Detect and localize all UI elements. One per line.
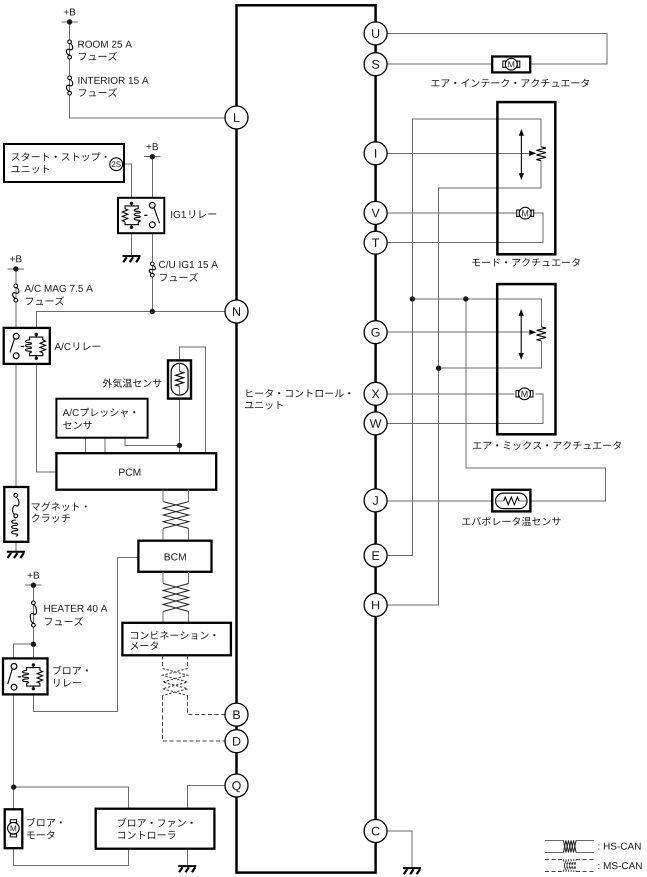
label HEATER fuse: [44, 605, 107, 612]
blower motor box: [5, 809, 23, 848]
wire mode pot top to bus A down to terminal E: [376, 119, 542, 555]
terminal H: [364, 594, 387, 617]
wire IG1 relay switch to C/U IG1 fuse to node at N line: [151, 233, 153, 311]
wire terminal T to mode actuator motor return: [376, 213, 543, 243]
relay IG1 coil: [130, 202, 133, 205]
terminal U: [364, 22, 387, 45]
wire terminal C to ground: [376, 831, 412, 868]
terminal N: [225, 300, 248, 323]
PCM box: [56, 453, 216, 490]
combination meter box: [122, 623, 230, 656]
dashed wire combination meter to terminal B: [188, 696, 227, 715]
air mix actuator box: [497, 284, 555, 434]
legend HS-CAN label: [598, 843, 640, 850]
junction node blower motor / controller: [11, 784, 16, 789]
fuse INTERIOR 15 A: [68, 76, 72, 80]
evaporator temp sensor box: [492, 490, 530, 512]
junction node C/U IG1 fuse at N line: [150, 309, 155, 314]
wire terminal V to mode actuator motor: [376, 212, 517, 214]
junction node temp sensor / pressure sensor: [177, 443, 182, 448]
wire terminal G to air mix wiper: [387, 331, 532, 333]
blower fan controller box: [96, 809, 215, 849]
BCM box: [138, 541, 211, 572]
relay IG1 switch: [149, 202, 155, 208]
wire A/C relay switch to magnet clutch: [15, 364, 17, 487]
wire outside air temp sensor top loop to PCM: [180, 347, 206, 453]
junction node bus C at air mix feed: [463, 296, 468, 301]
mode actuator position arrow: [520, 134, 522, 175]
relay blower coil: [32, 663, 35, 666]
relay A/C coil: [35, 333, 38, 336]
label blower fan controller: [118, 818, 193, 827]
wire IG1 relay coil to ground: [131, 233, 133, 255]
relay blower switch: [11, 664, 17, 670]
wire blower node to blower fan controller: [14, 787, 129, 809]
relay A/C switch: [13, 333, 19, 339]
relay IG1 box: [118, 198, 164, 233]
wire A/C pressure sensor right pin to temp sensor node: [125, 438, 180, 446]
air mix actuator position arrow: [520, 314, 522, 355]
power +B (heater fuse): [28, 572, 39, 579]
terminal V: [364, 201, 387, 224]
mode actuator potentiometer: [536, 147, 546, 161]
legend MS-CAN symbol: [545, 859, 594, 871]
label PCM: [119, 469, 140, 476]
legend HS-CAN symbol: [545, 840, 594, 852]
blower motor symbol: [10, 820, 16, 823]
wire air mix pot bottom to bus B node: [439, 341, 542, 368]
wire terminal U to air intake actuator: [376, 33, 607, 64]
heater control unit label: [246, 389, 350, 398]
label C/U IG1 fuse: [159, 261, 218, 268]
fuse ROOM 25 A: [68, 40, 72, 44]
wire BCM to blower relay coil: [33, 558, 138, 712]
heater control unit box: [237, 5, 376, 872]
start-stop unit label: [12, 152, 107, 161]
wire A/C relay coil to PCM: [36, 364, 56, 472]
fuse A/C MAG 7.5 A: [14, 284, 18, 288]
wire air mix pot feed from bus A: [412, 299, 541, 327]
wire A/C pressure sensor pins to PCM: [85, 438, 105, 454]
terminal D: [225, 730, 248, 753]
label ROOM 25 A fuse: [78, 41, 132, 48]
ground IG1 relay: [123, 255, 141, 257]
terminal T: [364, 231, 387, 254]
wire bus C to evaporator temp sensor: [466, 299, 606, 501]
terminal X: [364, 382, 387, 405]
terminal L: [225, 106, 248, 129]
wire mode pot bottom to bus B down to terminal H: [376, 161, 542, 605]
wire terminal I to mode actuator wiper: [376, 152, 536, 154]
wire blower motor to controller bottom loop: [14, 849, 129, 866]
fuse C/U IG1 15 A: [150, 262, 154, 266]
label IG1 relay: [171, 211, 186, 218]
wire controller to ground: [186, 849, 188, 866]
legend MS-CAN label: [598, 862, 641, 869]
sensor outside air temp thermistor: [171, 363, 188, 395]
wire +B to IG1 relay switch: [151, 157, 153, 198]
terminal G: [364, 321, 387, 344]
terminal S: [364, 53, 387, 76]
wire terminal W to air mix motor return: [387, 394, 543, 424]
air mix actuator potentiometer: [537, 327, 547, 341]
ground magnet clutch: [7, 551, 25, 553]
sensor outside air temp box: [168, 360, 191, 398]
terminal J: [364, 489, 387, 512]
wire +B through A/C MAG fuse to A/C relay switch: [15, 269, 17, 328]
MS-CAN twisted pair combination meter to unit: [163, 655, 188, 695]
label blower relay: [53, 666, 88, 675]
mode actuator motor: [517, 212, 534, 214]
ground heater control unit: [403, 867, 421, 869]
air intake actuator box: [492, 57, 530, 73]
magnet clutch element: [14, 493, 18, 497]
label mode actuator: [472, 258, 580, 267]
label air mix actuator: [473, 441, 621, 450]
junction node heater fuse split: [31, 642, 36, 647]
wire heater fuse node to blower relay switch: [14, 644, 34, 658]
terminal Q: [225, 774, 248, 797]
mode actuator box: [497, 102, 555, 254]
label blower motor: [27, 818, 62, 827]
wire terminal Q to blower fan controller: [187, 786, 236, 809]
terminal I: [364, 142, 387, 165]
power +B (room fuses): [64, 9, 75, 16]
relay A/C box: [4, 328, 50, 364]
label A/C relay: [54, 343, 70, 350]
fuse HEATER 40 A: [32, 601, 36, 605]
wire +B to ROOM/INTERIOR fuses to terminal L: [70, 22, 237, 118]
label INTERIOR 15 A fuse: [78, 77, 148, 84]
wire terminal J to evaporator temp sensor: [387, 500, 493, 502]
sensor A/C pressure box: [56, 399, 147, 438]
evaporator temp sensor thermistor: [496, 493, 528, 509]
terminal W: [364, 412, 387, 435]
label A/C pressure sensor: [63, 409, 79, 416]
junction node bus B at air mix return: [436, 366, 441, 371]
terminal B: [225, 703, 248, 726]
wire magnet clutch to ground: [15, 542, 17, 552]
dashed wire combination meter to terminal D: [163, 696, 227, 742]
wire blower relay switch to blower motor: [13, 694, 15, 808]
label A/C MAG fuse: [25, 285, 93, 292]
magnet clutch box: [4, 487, 28, 542]
label magnet clutch: [32, 502, 87, 511]
wire +B through HEATER fuse to blower relay: [32, 585, 34, 658]
wire N line to A/C relay coil: [36, 312, 236, 328]
power +B (IG1 relay): [147, 143, 158, 150]
wire 2S to IG1 relay coil: [123, 164, 132, 198]
air mix actuator motor: [516, 393, 533, 395]
wire terminal X to air mix motor: [387, 393, 515, 395]
label outside air temp sensor: [103, 378, 162, 387]
terminal C: [364, 820, 387, 843]
connector 2S: [110, 158, 123, 171]
start-stop unit box: [4, 144, 124, 182]
label BCM: [165, 553, 186, 560]
junction node bus A at air mix feed: [410, 296, 415, 301]
air intake actuator motor: [503, 63, 520, 65]
power +B (A/C MAG fuse): [10, 255, 21, 262]
label air intake actuator: [431, 79, 589, 88]
label combination meter: [131, 631, 215, 640]
wire outside air temp sensor to PCM junction: [179, 399, 181, 453]
HS-CAN twisted pair PCM to BCM: [163, 490, 189, 541]
terminal E: [364, 544, 387, 567]
wire terminal S to air intake actuator: [376, 63, 493, 65]
ground blower fan controller: [178, 865, 196, 867]
HS-CAN twisted pair BCM to combination meter: [163, 572, 189, 623]
label evaporator temp sensor: [462, 517, 560, 526]
relay blower box: [3, 658, 48, 694]
